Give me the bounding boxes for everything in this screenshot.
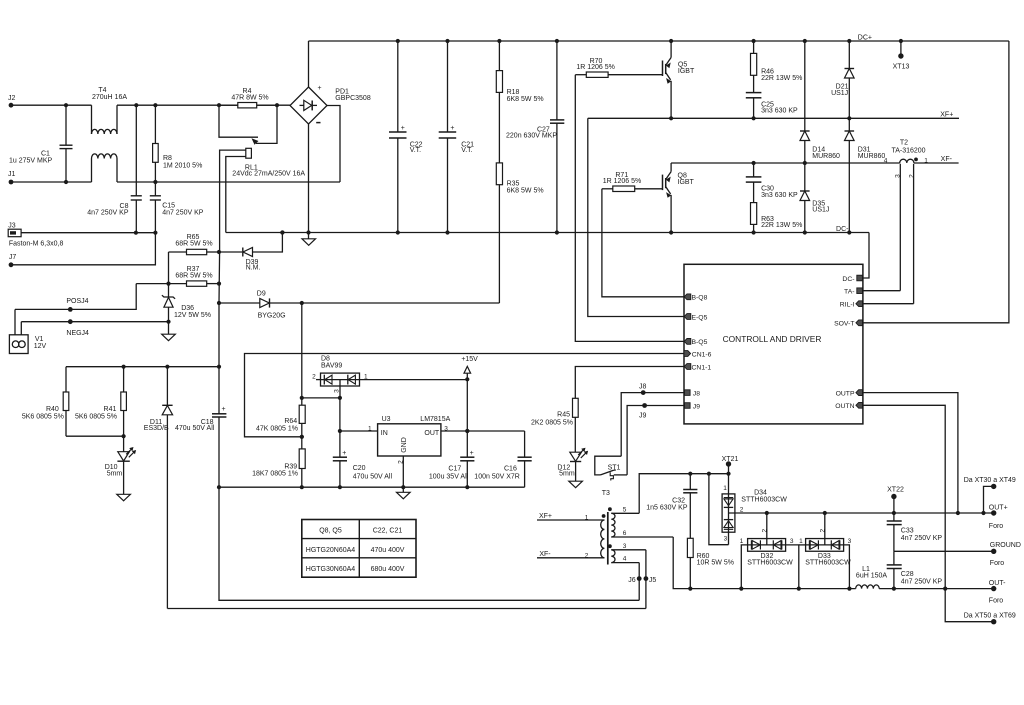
GROUND line [894,550,994,552]
wire +15V down to OUT wire [465,379,469,433]
svg-text:3: 3 [334,389,341,393]
svg-text:DC+: DC+ [858,35,872,42]
svg-text:+15V: +15V [461,356,478,363]
svg-text:1M 2010 5%: 1M 2010 5% [163,163,202,170]
svg-text:J5: J5 [649,577,657,584]
diode D21 [831,41,854,118]
capacitor C27 [506,41,564,233]
svg-text:OUTN: OUTN [835,403,854,410]
svg-text:V.T.: V.T. [461,147,472,154]
wire Q5 collector [670,41,672,58]
XF+ line [588,111,959,120]
wire D8 pin3 down to C20 [339,398,341,457]
terminal OUT+ [989,505,1008,530]
ground rail of aux supply [217,485,525,489]
capacitor C28 [887,551,943,588]
svg-text:68R 5W 5%: 68R 5W 5% [175,240,212,247]
svg-text:T4: T4 [98,87,106,94]
svg-text:100u 35V All: 100u 35V All [429,473,469,480]
svg-text:STTH6003CW: STTH6003CW [741,496,787,503]
svg-text:3: 3 [623,543,627,550]
svg-text:CONTROLL AND DRIVER: CONTROLL AND DRIVER [723,334,822,344]
diode D8 BAV99 [312,356,467,398]
wire DC- pin to rail [863,233,869,279]
svg-text:V.T.: V.T. [410,147,421,154]
terminal XT22 [887,487,904,514]
svg-text:6: 6 [623,530,627,537]
wire J6 return line [219,487,639,600]
svg-text:STTH6003CW: STTH6003CW [805,560,851,567]
resistor R60 [687,538,734,588]
svg-text:J3: J3 [8,223,16,230]
svg-text:US1J: US1J [812,207,829,214]
ground below D12 [569,481,583,488]
svg-text:47K 0805 1%: 47K 0805 1% [256,426,298,433]
LED D10 [105,436,136,494]
svg-text:DC-: DC- [842,276,854,283]
diode D11 [144,367,173,609]
wire OUTP net [863,393,960,515]
svg-text:Q8, Q5: Q8, Q5 [319,527,342,534]
svg-text:1: 1 [364,373,368,380]
svg-text:2: 2 [761,529,768,533]
wire D8 pin3 to R64 top [302,396,342,400]
svg-text:R45: R45 [557,412,570,419]
svg-text:3: 3 [895,174,902,178]
terminal XT13 [893,41,910,71]
svg-text:D36: D36 [181,305,194,312]
junction J5 [644,550,657,609]
inductor L1 [856,566,888,589]
svg-text:XF-: XF- [539,551,551,558]
svg-text:Faston-M 6,3x0,8: Faston-M 6,3x0,8 [9,241,64,248]
wire J8 net [621,383,684,456]
svg-text:5K6 0805 5%: 5K6 0805 5% [22,413,64,420]
resistor R45 [531,398,578,452]
svg-text:XF-: XF- [941,156,953,163]
capacitor C8 [87,105,142,233]
wire J9 net [627,403,684,475]
svg-text:IGBT: IGBT [678,179,695,186]
svg-text:4: 4 [884,157,888,164]
pin TA- [844,288,862,296]
svg-text:22R 13W 5%: 22R 13W 5% [761,222,802,229]
svg-text:1: 1 [924,158,928,165]
pin E-Q5 [684,314,707,322]
svg-text:HGTG20N60A4: HGTG20N60A4 [306,547,356,554]
capacitor C20 [333,450,393,487]
svg-text:BYG20G: BYG20G [258,313,286,320]
capacitor C33 [887,513,943,551]
transformer T3 core [607,512,609,565]
wire R40-R41 bottom [66,434,126,438]
ground below U3 [397,487,411,499]
svg-text:OUTP: OUTP [836,390,855,397]
svg-text:100n 50V X7R: 100n 50V X7R [474,473,520,480]
svg-text:XT13: XT13 [893,64,910,71]
svg-text:C28: C28 [901,571,914,578]
svg-text:6K8 5W 5%: 6K8 5W 5% [507,187,544,194]
wire CN1-1 net [575,367,684,399]
svg-text:3: 3 [790,538,794,545]
svg-text:J8: J8 [639,383,647,390]
svg-text:T2: T2 [900,140,908,147]
diode D9 [217,291,500,320]
resistor R37 [136,266,221,286]
svg-text:R41: R41 [104,406,117,413]
svg-text:J9: J9 [693,403,700,410]
connector J7 [9,254,17,267]
svg-text:J7: J7 [9,254,17,261]
wire top line T4 to bridge [117,103,290,107]
svg-text:1R 1206 5%: 1R 1206 5% [576,64,615,71]
XF- line [671,156,959,165]
resistor R4 [219,88,277,108]
relay RL1 contact [219,105,277,145]
svg-text:E-Q5: E-Q5 [692,314,708,321]
svg-text:J8: J8 [693,390,700,397]
wire J1 to T4 [11,181,92,183]
svg-text:IN: IN [381,430,388,437]
bridge rectifier PD1 [290,85,371,124]
svg-text:LM7815A: LM7815A [420,416,450,423]
pin CN1-1 [684,364,711,372]
svg-text:Foro: Foro [990,560,1005,567]
svg-text:GND: GND [401,437,408,453]
svg-text:2: 2 [312,374,316,381]
diode D14 [800,41,840,163]
svg-text:T3: T3 [602,490,610,497]
svg-text:220n 630V MKP: 220n 630V MKP [506,133,557,140]
svg-text:3: 3 [848,538,852,545]
relay RL1 coil [220,148,306,252]
dual diode D32 [740,511,799,589]
svg-text:C20: C20 [353,465,366,472]
zener D36 [162,284,211,322]
capacitor C17 [429,431,475,487]
svg-text:+: + [222,406,226,413]
svg-text:3: 3 [724,536,728,543]
transformer T2 primary [884,140,929,165]
wire OUT- line [879,587,994,591]
wire U3 GND [401,456,405,489]
svg-text:3n3 630 KP: 3n3 630 KP [761,192,798,199]
transistor Q8 IGBT [663,172,695,198]
source V1 [9,309,46,353]
LED D12 [557,448,588,482]
pin OUTN [835,402,862,410]
pin SOV-T [834,320,862,328]
resistor R35 [496,163,543,194]
svg-text:+: + [450,125,454,132]
svg-text:CN1-1: CN1-1 [692,364,712,371]
net POSJ4 [15,284,136,312]
svg-text:C22, C21: C22, C21 [373,527,403,534]
wire V219 vertical (R4 junction down) [218,252,221,367]
svg-text:10R 5W 5%: 10R 5W 5% [697,560,734,567]
wire R35 down to D9 line (crosses DC- rail) [498,185,500,303]
wire bridge AC2 jog [327,106,340,183]
svg-text:1u 275V MKP: 1u 275V MKP [9,158,53,165]
terminal Da XT30 a XT49 [964,477,1016,513]
capacitor C15 [150,182,204,233]
wire J3 line [21,231,157,235]
terminal XT21 [722,456,739,474]
svg-text:STTH6003CW: STTH6003CW [747,560,793,567]
resistor R41 [75,367,126,437]
terminal GROUND [990,542,1021,567]
wire Q8 emitter to DC- [670,195,672,233]
svg-text:1R 1206 5%: 1R 1206 5% [603,178,642,185]
svg-text:1: 1 [740,538,744,545]
svg-text:+: + [401,125,405,132]
pin J8 [685,390,701,398]
svg-text:2: 2 [740,506,744,513]
connector J2 [8,95,16,108]
svg-text:+: + [342,450,346,457]
wire E-Q5 net [588,118,684,316]
svg-text:GROUND: GROUND [990,542,1021,549]
wire Q5 emitter to XF+ [670,81,672,119]
svg-text:12V 5W 5%: 12V 5W 5% [174,312,211,319]
svg-text:4n7 250V KP: 4n7 250V KP [162,210,204,217]
svg-text:1n5 630V KP: 1n5 630V KP [646,504,688,511]
net NEGJ4 [21,319,170,336]
svg-text:5mm: 5mm [559,470,575,477]
junction J6 [628,563,641,601]
svg-text:RIL-I: RIL-I [840,302,855,309]
resistor R64 [256,405,305,449]
svg-text:+: + [317,85,321,92]
svg-text:3n3 630 KP: 3n3 630 KP [761,108,798,115]
svg-text:U3: U3 [382,416,391,423]
connector J1 [8,171,16,184]
svg-text:HGTG30N60A4: HGTG30N60A4 [306,566,356,573]
svg-text:C15: C15 [162,203,175,210]
svg-text:1: 1 [799,538,803,545]
resistor R65 [169,234,222,255]
svg-text:4: 4 [623,555,627,562]
capacitor C22 [389,41,423,233]
wire R65 left to R37 left [168,252,170,284]
svg-text:DC-: DC- [836,226,849,233]
resistor R63 [751,203,803,233]
svg-text:1: 1 [723,485,727,492]
connector J3 (Faston) [8,223,63,248]
svg-text:US1J: US1J [831,90,848,97]
diode D35 [800,163,829,233]
svg-text:B-Q5: B-Q5 [692,339,708,346]
svg-text:OUT+: OUT+ [989,505,1008,512]
svg-text:2: 2 [585,552,589,559]
ground below D10 [117,494,131,501]
terminal Da XT50 a XT69 [945,589,1016,625]
svg-text:470u 400V: 470u 400V [371,547,405,554]
capacitor C16 [474,431,531,487]
svg-text:D9: D9 [257,291,266,298]
wire secondary return rail [673,537,856,591]
svg-text:TA-: TA- [844,289,854,296]
svg-text:22R 13W 5%: 22R 13W 5% [761,75,802,82]
pin B-Q8 [684,294,707,302]
pin OUTP [836,390,863,398]
table component values [302,520,416,578]
resistor R71 [602,172,662,192]
wire B-Q8 net [602,189,684,297]
transformer T3 primary [537,513,605,559]
svg-text:J9: J9 [639,413,647,420]
svg-text:MUR860: MUR860 [858,153,886,160]
svg-text:5: 5 [623,507,627,514]
wire Q8 collector to XF- [670,163,672,172]
+15V symbol [461,356,478,381]
svg-text:OUT-: OUT- [989,580,1006,587]
wire D9 node down to R64 [300,303,304,405]
svg-text:R64: R64 [284,418,297,425]
svg-text:J1: J1 [8,171,16,178]
svg-text:Foro: Foro [989,598,1004,605]
svg-text:4n7 250V KP: 4n7 250V KP [901,535,943,542]
svg-text:+: + [470,450,474,457]
svg-text:R8: R8 [163,155,172,162]
svg-text:ST1: ST1 [608,464,621,471]
svg-text:R18: R18 [507,89,520,96]
svg-text:2: 2 [909,174,916,178]
dual diode D34 [709,474,787,545]
capacitor C25 [746,75,798,118]
capacitor C1 [9,103,73,184]
svg-text:470u 50V All: 470u 50V All [353,473,393,480]
svg-text:R40: R40 [46,406,59,413]
resistor R18 [496,41,543,103]
transistor Q5 IGBT [663,58,695,84]
svg-text:N.M.: N.M. [246,264,261,271]
wire J2 to T4 [11,104,92,106]
svg-text:47R 8W 5%: 47R 8W 5% [231,94,268,101]
svg-text:B-Q8: B-Q8 [692,295,708,302]
svg-text:XF+: XF+ [940,111,953,118]
svg-text:4n7 250V KP: 4n7 250V KP [87,210,129,217]
resistor R39 [252,449,305,487]
svg-text:Da XT50 a XT69: Da XT50 a XT69 [964,612,1016,619]
wire U3 OUT [441,429,525,433]
svg-text:2: 2 [819,529,826,533]
svg-text:C17: C17 [448,466,461,473]
resistor R40 [22,367,69,437]
svg-text:J6: J6 [628,577,636,584]
svg-text:MUR860: MUR860 [812,153,840,160]
svg-text:680u 400V: 680u 400V [371,566,405,573]
wire OUTN net [863,405,947,590]
inductor T4 (common-mode choke) [92,87,128,182]
pin J9 [685,403,701,411]
DC- rail [226,226,869,235]
dual diode D33 [799,511,852,589]
capacitor C30 [746,163,798,203]
diode D39 [219,230,285,271]
svg-text:68R 5W 5%: 68R 5W 5% [175,272,212,279]
transformer T3 secondary upper [608,507,673,538]
svg-text:6uH 150A: 6uH 150A [856,573,887,580]
capacitor C18 [175,367,226,488]
wire J5 return line [167,608,646,610]
pin DC- [842,275,862,283]
svg-text:TA-316200: TA-316200 [891,148,925,155]
terminal OUT- [989,580,1006,605]
svg-text:470u 50V All: 470u 50V All [175,425,215,432]
wire J7 line [11,233,155,265]
svg-text:6K8 5W 5%: 6K8 5W 5% [507,96,544,103]
svg-text:BAV99: BAV99 [321,362,342,369]
pin CN1-6 [684,351,712,359]
svg-text:J2: J2 [8,95,16,102]
wire T3 pin5 to D34 [639,472,730,514]
OUT+ rail [767,511,994,515]
svg-text:24Vdc 27mA/250V 16A: 24Vdc 27mA/250V 16A [232,171,305,178]
DC+ rail [309,35,1009,44]
diode D31 [845,118,886,232]
svg-text:CN1-6: CN1-6 [692,351,712,358]
pin RIL-I [840,301,863,309]
svg-text:C32: C32 [672,497,685,504]
svg-text:Foro: Foro [989,523,1004,530]
wire R18-R35 [498,92,500,162]
svg-text:5mm: 5mm [107,470,123,477]
svg-text:XF+: XF+ [539,513,552,520]
svg-text:4n7 250V KP: 4n7 250V KP [901,579,943,586]
svg-text:C33: C33 [901,527,914,534]
svg-text:C1: C1 [41,151,50,158]
thermal switch ST1 [595,456,627,497]
svg-text:IGBT: IGBT [678,68,695,75]
svg-text:2K2 0805 5%: 2K2 0805 5% [531,419,573,426]
resistor R46 [751,41,803,82]
wire LED block top [66,365,221,369]
regulator U3 LM7815A [368,416,451,464]
wire bridge plus to DC+ rail [308,41,310,87]
svg-text:18K7 0805 1%: 18K7 0805 1% [252,471,298,478]
ground below NEGJ4 [162,322,176,341]
capacitor C21 [439,41,474,233]
svg-text:5K6 0805 5%: 5K6 0805 5% [75,413,117,420]
wire U3 IN [338,429,378,433]
svg-text:Da XT30 a XT49: Da XT30 a XT49 [964,477,1016,484]
svg-text:NEGJ4: NEGJ4 [66,330,89,337]
transformer T3 secondary lower [608,543,646,563]
svg-text:SOV-T: SOV-T [834,321,854,328]
svg-text:ES3D/B: ES3D/B [144,425,169,432]
ground below bridge [302,233,316,246]
svg-text:C16: C16 [504,466,517,473]
svg-text:POSJ4: POSJ4 [66,298,88,305]
transformer T2 secondary [895,164,916,304]
svg-text:270uH 16A: 270uH 16A [92,94,127,101]
wire RIL-I pin to T2 [863,303,914,305]
pin B-Q5 [684,339,707,347]
svg-text:1: 1 [585,514,589,521]
wire bottom line T4 to bridge jog [117,180,340,184]
svg-text:12V: 12V [34,343,47,350]
wire B-Q5 net [575,75,684,342]
wire CN1-6 feedback net [245,354,685,439]
svg-text:R39: R39 [284,463,297,470]
wire bridge minus to DC- rail [306,124,310,235]
resistor R70 [575,58,662,78]
wire DC+ right edge to SOV-T [863,41,1009,323]
controller block U (CONTROLL AND DRIVER) [684,264,863,424]
capacitor C32 [646,474,697,539]
svg-text:GBPC3508: GBPC3508 [335,95,371,102]
